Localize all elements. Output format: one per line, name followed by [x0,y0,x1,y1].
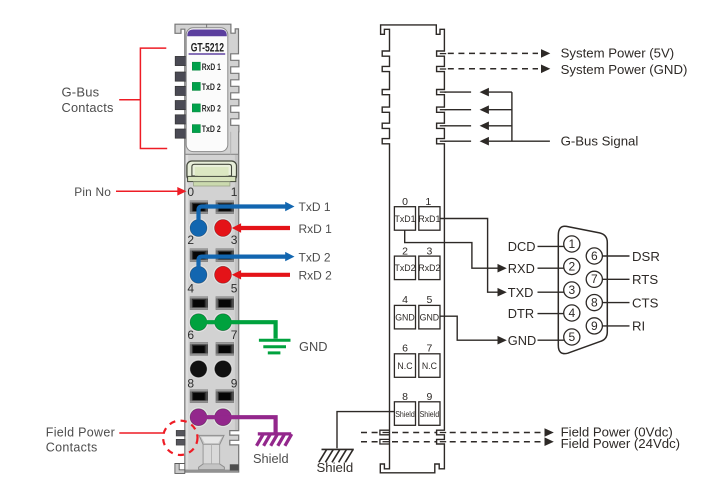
svg-text:N.C: N.C [422,361,438,371]
terminal 9 (purple) [213,407,233,427]
module GT-5212 housing body [175,24,239,472]
label DSR and lead [602,255,629,257]
terminal 4 (green) [189,312,209,332]
terminal 7 (hole) [213,359,233,379]
wire RxD 2 (red) [240,273,290,277]
G-Bus signal wires [444,92,550,141]
svg-text:4: 4 [187,282,194,296]
G-Bus contact tabs (module left side) [175,56,187,138]
socket row4 col0 [190,389,208,402]
svg-text:RXD: RXD [508,261,535,276]
svg-text:RxD2: RxD2 [418,263,440,273]
svg-text:0: 0 [187,185,194,199]
wire Shield to chassis ground [337,412,394,449]
socket row1 col1 [216,248,234,261]
svg-text:RTS: RTS [632,272,658,287]
DB9 pin 2 [564,258,580,274]
svg-text:System Power (GND): System Power (GND) [561,62,688,77]
svg-text:CTS: CTS [632,295,659,310]
svg-text:6: 6 [402,343,408,355]
svg-text:Shield: Shield [395,410,415,419]
svg-text:7: 7 [426,343,432,355]
LED TxD 2 [192,125,200,133]
label RI and lead [602,325,629,327]
label RTS and lead [602,278,629,280]
svg-text:7: 7 [231,328,238,342]
purple top bar [187,30,227,37]
socket row0 col0 [190,200,208,213]
wire Field Power 0Vdc (dashed) [361,433,541,442]
svg-text:3: 3 [231,233,238,247]
svg-text:4: 4 [402,294,408,306]
wire TxD 2 (blue) [199,257,287,272]
wire System Power GND (dashed) [448,68,538,70]
wire TxD1 to RXD [405,230,499,268]
svg-text:8: 8 [591,296,598,310]
svg-text:G-Bus: G-Bus [62,84,100,99]
svg-text:DCD: DCD [508,239,536,254]
svg-text:8: 8 [402,391,408,403]
DB9 pin 3 [564,282,580,298]
terminal 3 (red) [213,265,233,285]
socket row0 col1 [216,200,234,213]
svg-text:RxD1: RxD1 [418,214,440,224]
svg-text:5: 5 [568,330,575,344]
DB9 pin 6 [586,248,602,264]
svg-text:RxD 1: RxD 1 [299,222,333,236]
svg-text:Shield: Shield [253,451,289,466]
svg-text:6: 6 [591,249,598,263]
svg-text:Shield: Shield [317,460,354,475]
svg-text:GND: GND [299,339,327,354]
wire GND to GND [440,316,499,340]
svg-text:Shield: Shield [420,410,440,419]
socket row2 col1 [216,296,234,309]
svg-text:4: 4 [568,306,575,320]
svg-text:DTR: DTR [508,306,534,321]
terminal 1 (red) [213,218,233,238]
DB9 pin 5 [564,329,580,345]
DB9 connector outline U1 [558,226,607,353]
terminal 8 (purple) [189,407,209,427]
LED RxD 1 [192,62,200,70]
svg-text:RI: RI [632,319,645,334]
svg-text:GND: GND [395,313,415,323]
svg-text:5: 5 [426,294,432,306]
svg-text:3: 3 [568,283,575,297]
svg-text:1: 1 [231,185,238,199]
chassis ground symbol (purple) [257,434,292,446]
G-Bus callout bracket (red) [119,48,167,148]
housing divider line [185,153,239,155]
bottom release latch [199,435,225,469]
svg-text:TxD 1: TxD 1 [299,200,331,214]
socket row3 col0 [190,342,208,355]
wire RxD 1 (red) [240,226,290,230]
svg-text:RxD 1: RxD 1 [202,62,221,72]
svg-text:G-Bus Signal: G-Bus Signal [561,134,639,149]
field power contact tabs (module left bottom) [176,430,185,436]
socket row1 col0 [190,248,208,261]
body side shading [186,155,189,469]
svg-text:7: 7 [591,272,598,286]
svg-text:9: 9 [591,319,598,333]
label CTS and lead [602,302,629,304]
wire System Power 5V (dashed) [448,52,538,54]
field power tabs (left side of outline) [380,430,390,444]
socket row4 col1 [216,389,234,402]
svg-text:8: 8 [187,376,194,390]
svg-text:TXD: TXD [508,285,534,300]
purple underline [189,53,226,55]
svg-text:Contacts: Contacts [46,440,98,454]
svg-text:TxD 2: TxD 2 [202,82,221,92]
svg-text:Field Power (24Vdc): Field Power (24Vdc) [561,436,680,451]
terminal 6 (hole) [189,359,209,379]
svg-text:5: 5 [231,282,238,296]
socket row2 col0 [190,296,208,309]
svg-text:RxD 2: RxD 2 [202,104,221,114]
right fin shading [230,132,232,155]
front label panel [186,28,228,152]
module bottom shadow strip [185,470,238,472]
svg-text:System Power (5V): System Power (5V) [561,46,675,61]
module bottom-left foot [175,464,185,474]
svg-text:9: 9 [426,391,432,403]
svg-text:Pin No: Pin No [74,185,111,199]
svg-text:TxD1: TxD1 [394,214,415,224]
DB9 pin 4 [564,305,580,321]
LED RxD 2 [192,104,200,112]
Field Power callout line (red) [119,432,163,434]
svg-text:N.C: N.C [397,361,413,371]
LED TxD 2 [192,82,200,90]
DB9 pin 8 [586,295,602,311]
svg-text:RxD 2: RxD 2 [299,269,333,283]
svg-text:GND: GND [420,313,440,323]
svg-text:2: 2 [568,259,575,273]
svg-text:TxD 2: TxD 2 [299,250,331,264]
wire Field Power 24Vdc (dashed) [361,441,380,443]
svg-text:1: 1 [568,237,575,251]
svg-text:9: 9 [231,376,238,390]
svg-text:Contacts: Contacts [62,100,114,115]
wire RxD1 to TXD [440,219,499,293]
bus coupler outline [380,25,444,473]
ground symbol (signal ground, green) [259,340,291,353]
chassis ground symbol (schematic shield) [319,449,354,462]
socket row3 col1 [216,342,234,355]
wire Shield (purple) [199,417,276,432]
module bottom-right foot (dark) [230,464,239,470]
wire GND (green) [199,322,276,338]
Field Power dashed circle (red) [163,421,197,455]
svg-text:Field Power: Field Power [46,425,115,439]
housing top seam tick [206,24,208,28]
svg-text:GT-5212: GT-5212 [191,41,225,55]
svg-text:DSR: DSR [632,249,660,264]
terminal 0 (blue) [189,218,209,238]
terminal 2 (blue) [189,265,209,285]
svg-text:TxD 2: TxD 2 [202,124,221,134]
svg-text:TxD2: TxD2 [394,263,415,273]
DB9 pin 9 [586,318,602,334]
Pin No arrow (red) [116,190,179,192]
ejector latch (green) [187,161,237,181]
terminal 5 (green) [213,312,233,332]
DB9 pin 7 [586,271,602,287]
svg-text:GND: GND [508,333,536,348]
DB9 pin 1 [564,236,580,252]
wire TxD 1 (blue) [199,207,287,226]
contact pins in right notches [440,54,446,442]
